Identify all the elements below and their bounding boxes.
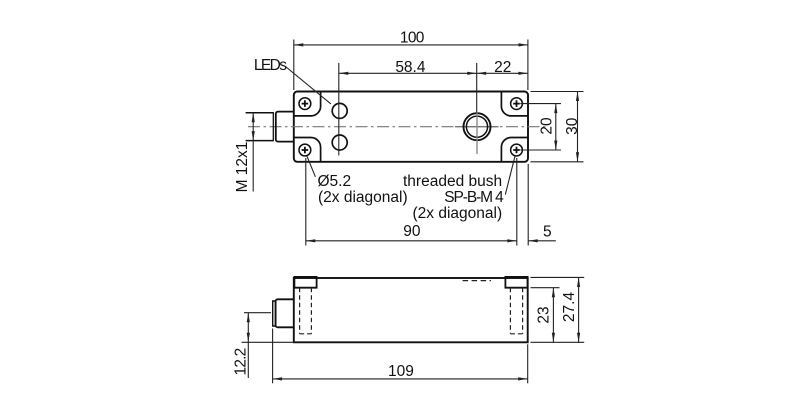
dim 12.2: extension line at body bottom	[242, 341, 294, 343]
svg-text:100: 100	[400, 30, 425, 47]
dim 30: dimension line	[577, 92, 579, 162]
boss outline bottom-left corner	[294, 138, 321, 162]
screw hole top-right	[511, 98, 523, 110]
sensing face circle outer	[464, 113, 491, 140]
sensing face circle inner	[466, 116, 487, 137]
connector ring (side view)	[273, 301, 276, 326]
dim 100: extension line right	[527, 40, 529, 91]
svg-text:(2x diagonal): (2x diagonal)	[318, 189, 408, 206]
hidden hole under right bush (dashed)	[510, 288, 522, 334]
screw hole top-left	[299, 98, 311, 110]
svg-text:22: 22	[494, 59, 511, 76]
svg-text:58.4: 58.4	[395, 59, 426, 76]
dim 100: extension line left	[293, 40, 295, 91]
dim 30: extension lines from body corners	[531, 92, 584, 162]
dim 5: dimension line with outside arrow	[528, 240, 556, 242]
svg-text:threaded bush: threaded bush	[403, 173, 502, 190]
dim 12.2: dimension line	[247, 313, 249, 378]
connector thread (top view)	[246, 113, 274, 141]
screw hole bottom-right	[511, 144, 523, 156]
svg-text:LEDs: LEDs	[254, 57, 287, 74]
right mounting bush flange	[505, 277, 527, 288]
boss outline top-left corner	[294, 92, 321, 116]
sensor body outline (side view)	[294, 278, 528, 342]
sensor body outline (top view)	[294, 92, 528, 162]
dim 109: dimension line	[273, 378, 528, 380]
svg-text:90: 90	[403, 223, 421, 240]
svg-text:23: 23	[536, 306, 553, 323]
svg-text:(2x diagonal): (2x diagonal)	[413, 205, 503, 222]
dim 100: dimension line	[294, 44, 528, 46]
dim 109: extension line left	[272, 329, 274, 384]
boss outline bottom-right corner	[501, 138, 528, 162]
dim 20: dimension line	[555, 104, 557, 150]
connector flange (side view)	[276, 299, 294, 327]
connector groove (top view)	[272, 112, 274, 141]
hidden sensing face line (dashed)	[463, 280, 491, 282]
svg-text:M 12x1: M 12x1	[234, 142, 251, 193]
sensing circle horizontal crosshair	[455, 126, 499, 128]
LED upper	[332, 103, 347, 118]
Ø5.2 leader line	[307, 156, 316, 177]
dim 23: dimension line	[552, 288, 554, 343]
svg-text:109: 109	[388, 363, 414, 380]
dim 58.4: extension line through LEDs	[338, 63, 340, 156]
svg-text:5: 5	[543, 224, 552, 241]
svg-text:Ø5.2: Ø5.2	[318, 173, 352, 190]
svg-text:20: 20	[539, 117, 556, 135]
hidden hole under left bush (dashed)	[300, 288, 312, 334]
screw hole bottom-left	[299, 144, 311, 156]
svg-text:27.4: 27.4	[561, 292, 578, 323]
dim 27.4: dimension line	[578, 277, 580, 342]
dim 5: extension from body right edge	[527, 164, 529, 246]
dim 90: extension from right screw	[516, 158, 518, 246]
svg-text:12.2: 12.2	[233, 348, 250, 375]
dim 20: extension lines from right screws	[520, 104, 561, 150]
dim 90: extension from left screw	[305, 158, 307, 246]
dim 90: dimension line	[306, 240, 517, 242]
dim 109: extension line right	[527, 344, 529, 383]
threaded bush leader line	[505, 156, 515, 195]
center line (horizontal dash-dot axis)	[248, 126, 546, 128]
svg-text:SP-B-M 4: SP-B-M 4	[444, 189, 504, 206]
dim 58.4/22: extension line through sensing circle	[476, 63, 478, 113]
left mounting bush flange	[294, 277, 316, 288]
dim 23: extension line	[531, 287, 560, 289]
LEDs leader line	[286, 67, 331, 104]
boss outline top-right corner	[501, 92, 528, 116]
dim 27.4: extension lines	[531, 277, 585, 342]
dim 12.2: extension line at connector axis	[244, 312, 271, 314]
dim M12x1: dimension line	[252, 113, 254, 192]
dim 58.4: dimension line	[339, 72, 528, 74]
LED lower	[332, 135, 347, 150]
connector flange (top view)	[276, 112, 294, 142]
svg-text:30: 30	[564, 117, 581, 135]
